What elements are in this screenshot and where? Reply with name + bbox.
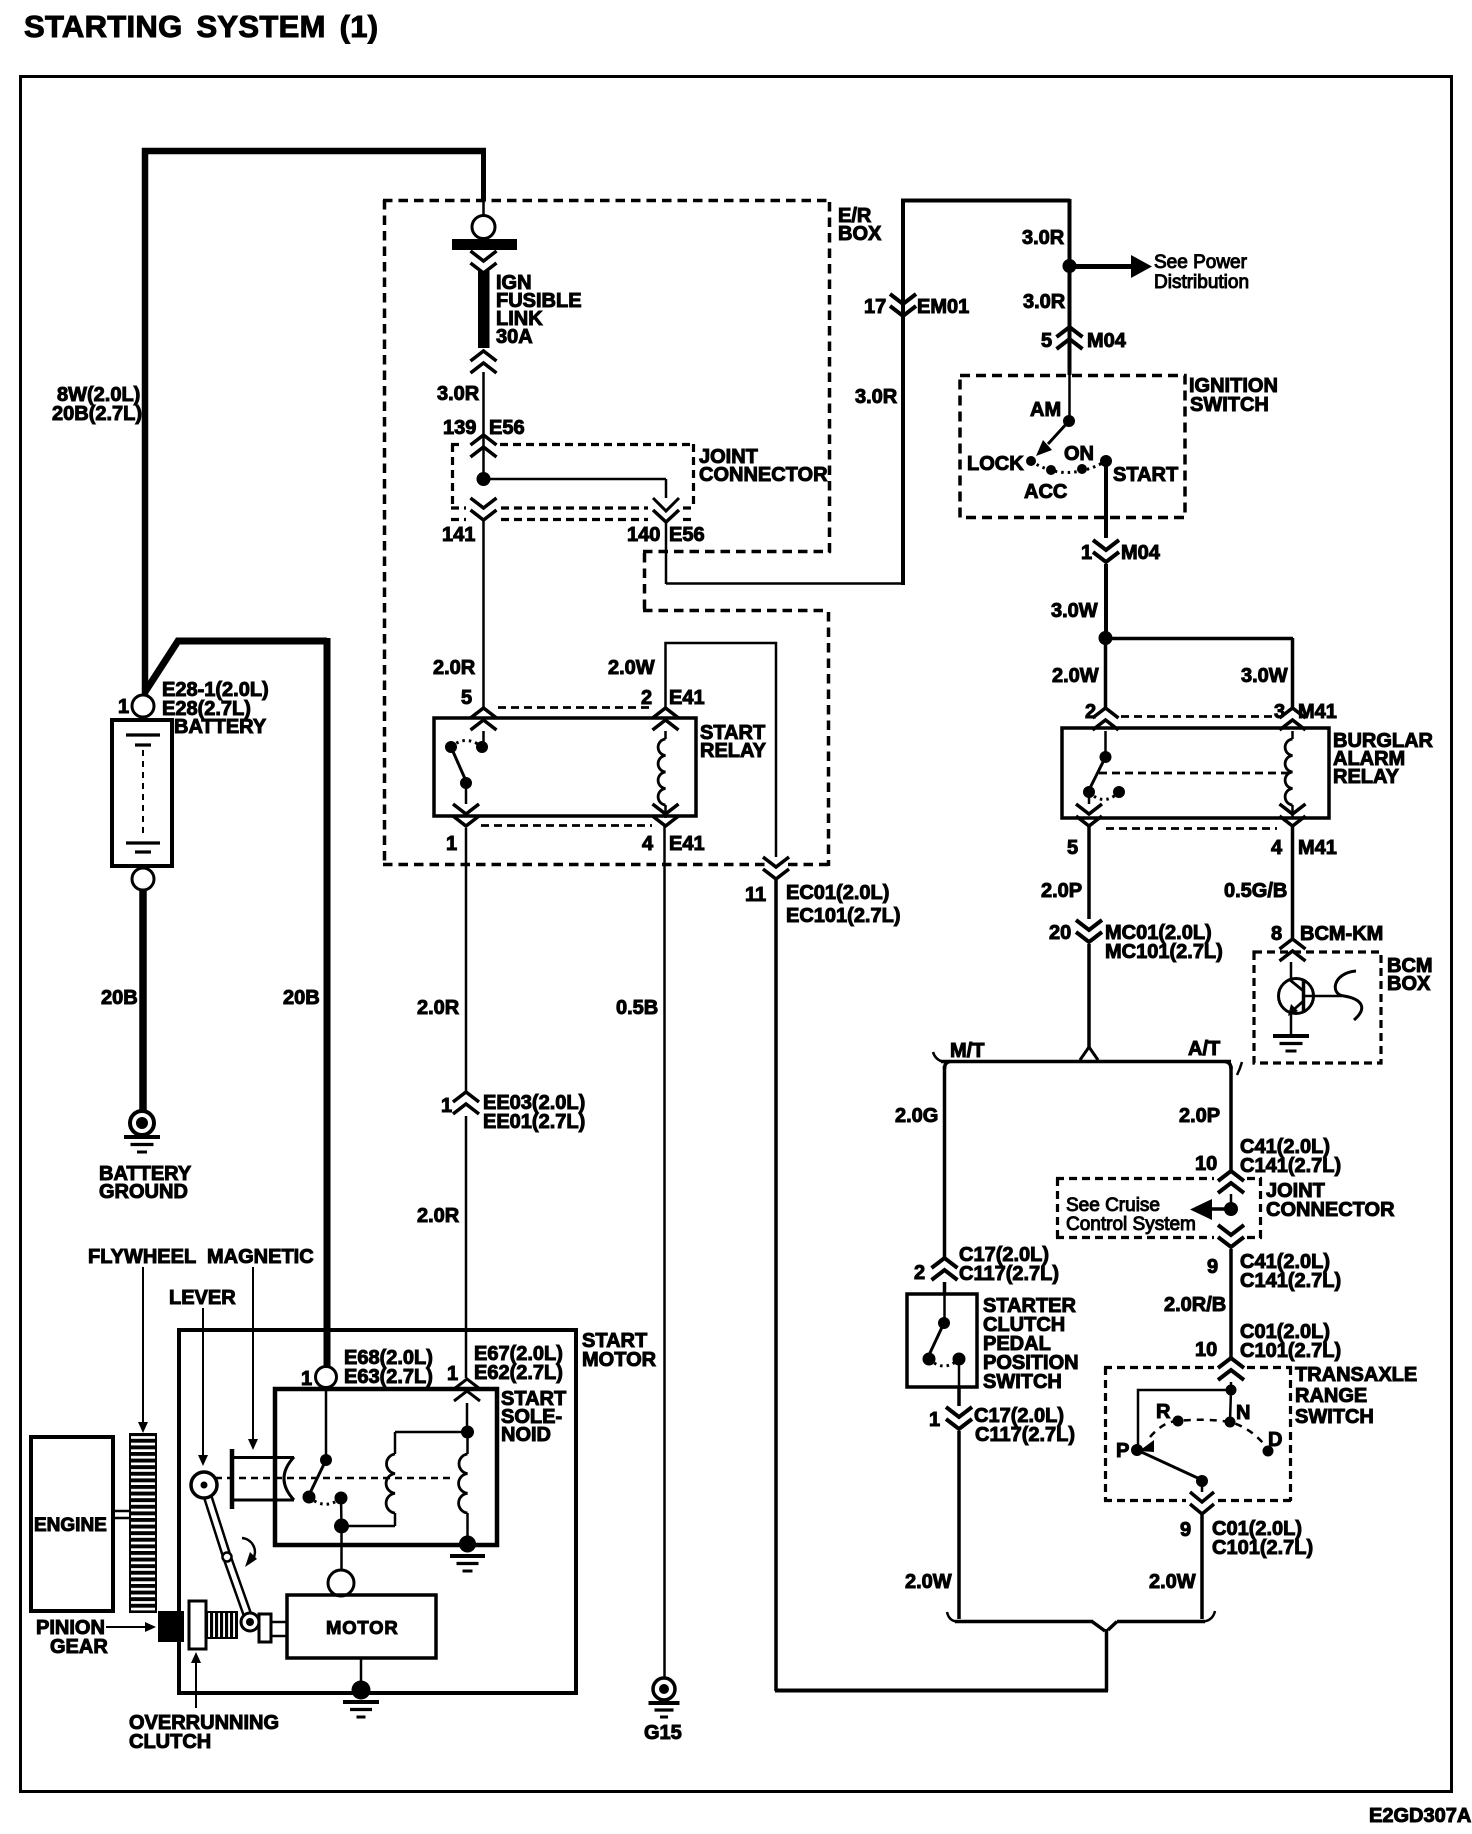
wire transaxle input bbox=[1230, 1382, 1233, 1390]
transistor Q1 in BCM bbox=[1290, 962, 1293, 980]
svg-text:Control System: Control System bbox=[1066, 1214, 1196, 1235]
ground solenoid bbox=[459, 1536, 476, 1553]
svg-text:3.0R: 3.0R bbox=[437, 383, 480, 405]
svg-text:START: START bbox=[1113, 464, 1178, 486]
burglar relay switch bbox=[1104, 731, 1107, 757]
node R bbox=[1173, 1416, 1184, 1427]
connector 4 M41 bbox=[1280, 804, 1306, 826]
ground battery ground bbox=[130, 1111, 154, 1135]
svg-text:E41: E41 bbox=[669, 687, 705, 709]
plunger actuation dashed line bbox=[215, 1477, 450, 1480]
wire EC01 to bottom rail bbox=[774, 880, 778, 1691]
svg-text:141: 141 bbox=[442, 524, 475, 546]
svg-text:1: 1 bbox=[929, 1409, 940, 1431]
svg-text:C117(2.7L): C117(2.7L) bbox=[975, 1424, 1075, 1446]
wire 3.0R top run bbox=[901, 199, 1070, 203]
svg-text:2.0W: 2.0W bbox=[1052, 665, 1099, 687]
connector 1 E41 bbox=[453, 804, 479, 826]
svg-text:EE01(2.7L): EE01(2.7L) bbox=[483, 1111, 585, 1133]
svg-text:140: 140 bbox=[627, 524, 660, 546]
flywheel bbox=[130, 1434, 156, 1612]
lever rotation arrow bbox=[242, 1538, 255, 1559]
fuse IGN fusible link 30A bbox=[472, 216, 495, 239]
svg-text:SWITCH: SWITCH bbox=[1190, 394, 1269, 416]
svg-text:EM01: EM01 bbox=[917, 296, 969, 318]
wire split funnel bbox=[1080, 1047, 1098, 1060]
start solenoid box bbox=[275, 1389, 497, 1545]
svg-text:8: 8 bbox=[1271, 923, 1282, 945]
svg-text:ENGINE: ENGINE bbox=[34, 1515, 107, 1536]
ground G15 bbox=[653, 1678, 675, 1700]
transaxle range switch box bbox=[1104, 1366, 1214, 1369]
svg-text:Distribution: Distribution bbox=[1154, 272, 1249, 293]
wire center drop bbox=[1105, 1629, 1109, 1691]
node 1 E68/E63 terminal bbox=[316, 1367, 337, 1388]
svg-text:BATTERY: BATTERY bbox=[174, 716, 267, 738]
BCM box outline bbox=[1254, 952, 1381, 1063]
svg-text:20B: 20B bbox=[283, 987, 320, 1009]
svg-text:2.0W: 2.0W bbox=[608, 657, 655, 679]
ignition switch lever bbox=[1048, 421, 1069, 444]
svg-text:3: 3 bbox=[1274, 701, 1285, 723]
wire battery ground cable 20B bbox=[139, 890, 147, 1112]
svg-text:2.0R: 2.0R bbox=[417, 997, 460, 1019]
svg-text:139: 139 bbox=[443, 417, 476, 439]
clutch switch contacts bbox=[943, 1294, 946, 1323]
svg-text:MAGNETIC: MAGNETIC bbox=[207, 1246, 314, 1268]
connector face dashed M41 bottom bbox=[1106, 827, 1277, 830]
svg-text:3.0R: 3.0R bbox=[1022, 227, 1065, 249]
connector face dashed E41 bottom bbox=[481, 824, 652, 827]
motor M1 bbox=[328, 1570, 354, 1596]
svg-text:2.0G: 2.0G bbox=[895, 1105, 938, 1127]
svg-text:M04: M04 bbox=[1087, 330, 1127, 352]
connector 5 E41 bbox=[471, 708, 497, 730]
svg-text:17: 17 bbox=[864, 296, 886, 318]
wire bottom merge rail bbox=[947, 1612, 957, 1622]
svg-text:3.0R: 3.0R bbox=[855, 386, 898, 408]
lever arm bbox=[204, 1485, 250, 1622]
svg-text:3.0W: 3.0W bbox=[1241, 665, 1288, 687]
wire 20B branch to start motor bbox=[145, 641, 327, 692]
svg-text:BOX: BOX bbox=[1387, 973, 1431, 995]
connector 20 MC01 bbox=[1076, 920, 1102, 942]
wire 2.0R/B bbox=[1229, 1249, 1233, 1358]
wire 3.0W branch to pin3 bbox=[1105, 637, 1293, 641]
start relay coil bbox=[664, 731, 667, 739]
connector 141 E56 bbox=[471, 498, 497, 520]
contact arc LOCK-ACC-ON-START bbox=[1031, 461, 1106, 473]
svg-text:GEAR: GEAR bbox=[50, 1636, 108, 1658]
start motor box bbox=[179, 1330, 576, 1693]
svg-text:G15: G15 bbox=[644, 1722, 682, 1744]
svg-text:CONNECTOR: CONNECTOR bbox=[699, 464, 828, 486]
svg-text:RELAY: RELAY bbox=[700, 740, 767, 762]
svg-text:BCM-KM: BCM-KM bbox=[1300, 923, 1383, 945]
svg-text:C101(2.7L): C101(2.7L) bbox=[1240, 1340, 1341, 1362]
connector face dashed M41 top bbox=[1121, 715, 1279, 718]
connector 9 C41 bbox=[1218, 1225, 1244, 1247]
svg-text:E56: E56 bbox=[669, 524, 705, 546]
connector 3 M41 bbox=[1280, 708, 1306, 730]
arrow see power distribution bbox=[1070, 264, 1131, 269]
svg-text:RANGE: RANGE bbox=[1295, 1385, 1367, 1407]
wire 2.0W A/T output bbox=[1200, 1515, 1204, 1619]
svg-text:EC01(2.0L): EC01(2.0L) bbox=[786, 882, 889, 904]
node transaxle output bbox=[1196, 1475, 1208, 1487]
node P bbox=[1131, 1444, 1143, 1456]
transaxle lever bbox=[1137, 1450, 1202, 1480]
connector 1 EE03/EE01 bbox=[453, 1092, 479, 1114]
start relay switch bbox=[482, 731, 485, 747]
node N bbox=[1225, 1417, 1236, 1428]
svg-text:E41: E41 bbox=[669, 833, 705, 855]
connector 5 M04 bbox=[1057, 327, 1083, 349]
svg-text:2: 2 bbox=[914, 1262, 925, 1284]
svg-text:TRANSAXLE: TRANSAXLE bbox=[1295, 1364, 1417, 1386]
svg-text:See Power: See Power bbox=[1154, 252, 1248, 273]
node junction in joint connector bbox=[477, 472, 491, 486]
wire 0.5G/B bbox=[1291, 826, 1295, 938]
joint connector C41 box bbox=[1056, 1177, 1214, 1180]
svg-text:SWITCH: SWITCH bbox=[1295, 1406, 1374, 1428]
svg-text:10: 10 bbox=[1195, 1339, 1217, 1361]
svg-text:ACC: ACC bbox=[1024, 481, 1067, 503]
solenoid pull-in coil bbox=[394, 1513, 397, 1526]
wire inside joint connector bbox=[1230, 1194, 1233, 1210]
svg-text:1: 1 bbox=[301, 1368, 312, 1390]
node ACC bbox=[1046, 465, 1056, 475]
svg-text:LEVER: LEVER bbox=[169, 1287, 236, 1309]
connector 2 E41 bbox=[653, 708, 679, 730]
node solenoid motor junction bbox=[334, 1519, 349, 1534]
svg-text:2.0R: 2.0R bbox=[433, 657, 476, 679]
svg-text:FLYWHEEL: FLYWHEEL bbox=[88, 1246, 196, 1268]
overrunning clutch body bbox=[189, 1601, 206, 1649]
svg-text:D: D bbox=[1268, 1429, 1282, 1451]
connector 140 E56 bbox=[653, 498, 679, 511]
solenoid hold-in coil bbox=[466, 1432, 469, 1454]
connector 4 E41 bbox=[653, 804, 679, 826]
svg-text:3.0W: 3.0W bbox=[1051, 600, 1098, 622]
solenoid switch contacts bbox=[325, 1387, 328, 1460]
wire A/T branch 2.0P bbox=[1225, 1062, 1231, 1070]
svg-text:20B(2.7L): 20B(2.7L) bbox=[52, 403, 142, 425]
node 1 E28 battery terminal bbox=[132, 695, 154, 717]
svg-text:2.0R/B: 2.0R/B bbox=[1164, 1294, 1226, 1316]
svg-text:5: 5 bbox=[1067, 837, 1078, 859]
node cruise tap bbox=[1224, 1202, 1238, 1216]
svg-text:CLUTCH: CLUTCH bbox=[129, 1731, 211, 1753]
ignition switch box bbox=[960, 376, 1185, 518]
svg-text:5: 5 bbox=[461, 687, 472, 709]
wire M/T branch 2.0G bbox=[945, 1062, 951, 1070]
svg-text:2.0R: 2.0R bbox=[417, 1205, 460, 1227]
wire into clutch switch bbox=[943, 1282, 947, 1294]
wire 2.0W M/T output bbox=[957, 1431, 961, 1619]
node see-power junction bbox=[1063, 259, 1077, 273]
svg-text:5: 5 bbox=[1041, 330, 1052, 352]
pinion gear bbox=[158, 1611, 184, 1642]
battery negative terminal bbox=[132, 868, 154, 890]
svg-text:C101(2.7L): C101(2.7L) bbox=[1212, 1537, 1313, 1559]
svg-text:MOTOR: MOTOR bbox=[326, 1617, 399, 1638]
wire 0.5B to G15 bbox=[663, 826, 666, 1677]
engine bbox=[31, 1437, 113, 1611]
svg-text:C141(2.7L): C141(2.7L) bbox=[1240, 1270, 1341, 1292]
wire junction to pin 140 bbox=[484, 478, 667, 481]
wire 2.0R to start solenoid bbox=[465, 1116, 468, 1378]
connector 9 C01 bbox=[1201, 1481, 1204, 1492]
svg-text:MOTOR: MOTOR bbox=[582, 1349, 657, 1371]
svg-text:P: P bbox=[1116, 1440, 1129, 1462]
wire 2.0W to pin2 bbox=[1104, 638, 1108, 708]
svg-text:GROUND: GROUND bbox=[99, 1181, 188, 1203]
svg-text:NOID: NOID bbox=[501, 1424, 551, 1446]
wire START output bbox=[1104, 461, 1108, 538]
svg-text:R: R bbox=[1156, 1401, 1171, 1423]
svg-text:1: 1 bbox=[441, 1095, 452, 1117]
svg-text:20: 20 bbox=[1049, 922, 1071, 944]
svg-text:C117(2.7L): C117(2.7L) bbox=[959, 1263, 1059, 1285]
svg-text:3.0R: 3.0R bbox=[1023, 291, 1066, 313]
svg-text:EC101(2.7L): EC101(2.7L) bbox=[786, 905, 901, 927]
svg-text:2.0P: 2.0P bbox=[1041, 880, 1082, 902]
svg-text:CONNECTOR: CONNECTOR bbox=[1266, 1199, 1395, 1221]
svg-text:SWITCH: SWITCH bbox=[983, 1371, 1062, 1393]
svg-text:E62(2.7L): E62(2.7L) bbox=[474, 1362, 563, 1384]
svg-text:30A: 30A bbox=[496, 326, 533, 348]
solenoid plunger bbox=[230, 1449, 235, 1509]
wire fusible link drop bbox=[481, 149, 486, 201]
svg-text:2.0W: 2.0W bbox=[1149, 1571, 1196, 1593]
relay U1 start relay box bbox=[434, 718, 696, 816]
svg-text:M/T: M/T bbox=[950, 1040, 984, 1062]
wire 3.0W bbox=[1104, 564, 1108, 638]
svg-text:M04: M04 bbox=[1121, 542, 1161, 564]
svg-text:2.0P: 2.0P bbox=[1179, 1105, 1220, 1127]
svg-text:2: 2 bbox=[641, 687, 652, 709]
svg-text:RELAY: RELAY bbox=[1333, 766, 1400, 788]
wire 2.0R relay to EE03 bbox=[465, 828, 468, 1092]
node START bbox=[1100, 455, 1112, 467]
wire AM feed bbox=[1068, 375, 1071, 421]
connector 139 E56 bbox=[471, 435, 497, 457]
svg-text:E63(2.7L): E63(2.7L) bbox=[344, 1366, 433, 1388]
wire 3.0R riser to E/R box top bbox=[901, 199, 905, 585]
E/R box outline bbox=[383, 199, 831, 203]
connector 1 E67/E62 bbox=[454, 1379, 480, 1401]
svg-text:1: 1 bbox=[446, 833, 457, 855]
svg-text:BOX: BOX bbox=[838, 223, 882, 245]
svg-text:M41: M41 bbox=[1298, 701, 1337, 723]
wire 2.0P bbox=[1087, 826, 1091, 919]
wire 3.0R fuse to joint connector bbox=[482, 372, 485, 479]
node ON bbox=[1077, 464, 1087, 474]
wire junction to pull-in coil bbox=[342, 1525, 396, 1528]
connector 1 M04 bbox=[1093, 540, 1119, 562]
node LOCK bbox=[1026, 456, 1036, 466]
svg-text:11: 11 bbox=[745, 884, 766, 906]
svg-text:STARTING SYSTEM (1): STARTING SYSTEM (1) bbox=[24, 9, 378, 44]
svg-text:LOCK: LOCK bbox=[967, 453, 1024, 475]
svg-text:E56: E56 bbox=[489, 417, 525, 439]
svg-text:1: 1 bbox=[1081, 542, 1092, 564]
svg-text:ON: ON bbox=[1064, 443, 1094, 465]
ground motor bbox=[360, 1658, 363, 1682]
svg-text:M41: M41 bbox=[1298, 837, 1337, 859]
connector 1 C17 bbox=[957, 1387, 961, 1406]
node D bbox=[1263, 1446, 1274, 1457]
arrow see cruise control bbox=[1212, 1207, 1231, 1211]
svg-text:2.0W: 2.0W bbox=[905, 1571, 952, 1593]
range contact dashed arc bbox=[1150, 1420, 1268, 1449]
svg-text:20B: 20B bbox=[101, 987, 138, 1009]
connector 2 C17 bbox=[932, 1258, 958, 1280]
starter clutch pedal position switch box bbox=[907, 1294, 977, 1387]
connector face dashed E41 top bbox=[498, 706, 652, 709]
wire 2.0W relay pin2 to EC01 bbox=[666, 643, 777, 857]
node AM contact bbox=[1063, 415, 1075, 427]
connector 2 M41 bbox=[1093, 708, 1119, 730]
relay actuation dashed line bbox=[1099, 772, 1291, 775]
svg-text:0.5G/B: 0.5G/B bbox=[1224, 880, 1287, 902]
svg-text:9: 9 bbox=[1207, 1256, 1218, 1278]
svg-text:9: 9 bbox=[1180, 1519, 1191, 1541]
connector 5 M41 bbox=[1076, 804, 1102, 826]
svg-text:1: 1 bbox=[118, 696, 129, 718]
node solenoid coil junction bbox=[461, 1426, 474, 1439]
joint connector box bbox=[451, 443, 464, 446]
node 3.0W junction bbox=[1099, 631, 1113, 645]
wire to N contact bbox=[1230, 1390, 1231, 1422]
svg-text:N: N bbox=[1236, 1402, 1250, 1424]
svg-text:AM: AM bbox=[1030, 399, 1061, 421]
connector 17 EM01 bbox=[890, 294, 916, 316]
svg-text:10: 10 bbox=[1195, 1153, 1217, 1175]
svg-text:1: 1 bbox=[447, 1363, 458, 1385]
svg-text:0.5B: 0.5B bbox=[616, 997, 658, 1019]
svg-text:MC101(2.7L): MC101(2.7L) bbox=[1105, 941, 1223, 963]
node transaxle input junction bbox=[1226, 1385, 1237, 1396]
burglar relay coil bbox=[1291, 731, 1294, 739]
relay U2 burglar alarm relay box bbox=[1062, 728, 1329, 818]
ground BCM transistor bbox=[1290, 1012, 1293, 1035]
svg-text:4: 4 bbox=[642, 833, 654, 855]
engine flywheel link bbox=[113, 1510, 130, 1513]
svg-text:4: 4 bbox=[1271, 837, 1283, 859]
svg-text:See Cruise: See Cruise bbox=[1066, 1195, 1160, 1216]
wire to P contact bbox=[1138, 1390, 1231, 1448]
wire battery positive feed (top bus) bbox=[142, 148, 486, 155]
svg-text:A/T: A/T bbox=[1188, 1038, 1220, 1060]
wire E56 pin140 to EM01 bbox=[665, 521, 668, 584]
svg-text:C141(2.7L): C141(2.7L) bbox=[1240, 1155, 1341, 1177]
wire 2.0P to M/T-A/T split bbox=[1087, 944, 1091, 1049]
connector 11 EC01/EC101 bbox=[763, 857, 789, 879]
battery B1 bbox=[112, 720, 172, 866]
connector 10 C41 bbox=[1218, 1171, 1244, 1193]
connector 8 BCM-KM bbox=[1280, 939, 1306, 961]
svg-text:2: 2 bbox=[1085, 701, 1096, 723]
wire bottom rail to EC01 branch bbox=[775, 1689, 1108, 1693]
svg-text:E2GD307A: E2GD307A bbox=[1369, 1805, 1471, 1827]
